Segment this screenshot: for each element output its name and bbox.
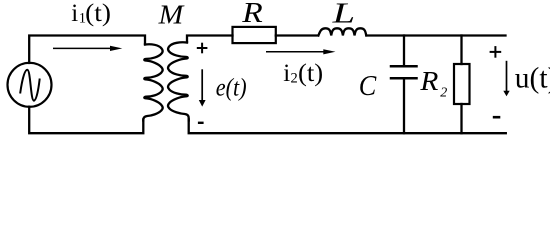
wire primary bottom rail	[29, 107, 143, 134]
current arrow i2	[266, 49, 336, 54]
transformer primary winding	[143, 44, 162, 120]
current arrow i1	[53, 46, 122, 51]
capacitor C top stub	[403, 36, 405, 66]
resistor R	[233, 27, 276, 43]
wire secondary top rail	[187, 36, 233, 43]
minus sign secondary	[198, 122, 204, 124]
svg-text:L: L	[331, 0, 355, 30]
svg-text:R: R	[241, 0, 263, 29]
resistor R2	[454, 64, 470, 104]
minus sign output	[493, 116, 501, 119]
resistor R2 top stub	[460, 36, 462, 65]
plus sign secondary	[197, 43, 208, 54]
voltage arrow u(t)	[503, 61, 509, 96]
capacitor C bottom stub	[403, 79, 405, 133]
svg-text:R2: R2	[419, 65, 447, 101]
svg-text:C: C	[359, 70, 377, 102]
svg-text:u(t): u(t)	[515, 63, 550, 95]
capacitor C plates	[391, 65, 417, 68]
svg-text:M: M	[158, 0, 186, 30]
svg-text:i2(t): i2(t)	[283, 60, 323, 87]
svg-text:e(t): e(t)	[216, 75, 247, 102]
plus sign output	[490, 46, 502, 58]
resistor R2 bottom stub	[460, 104, 462, 133]
wire L to right end	[367, 34, 506, 36]
svg-text:i1(t): i1(t)	[71, 0, 111, 27]
AC source V1	[8, 63, 52, 107]
transformer secondary winding	[168, 42, 189, 120]
wire primary top rail	[29, 36, 145, 64]
wire secondary bottom rail	[189, 120, 506, 134]
wire R to L	[276, 34, 318, 36]
inductor L	[318, 28, 366, 35]
voltage arrow e(t)	[199, 69, 206, 106]
